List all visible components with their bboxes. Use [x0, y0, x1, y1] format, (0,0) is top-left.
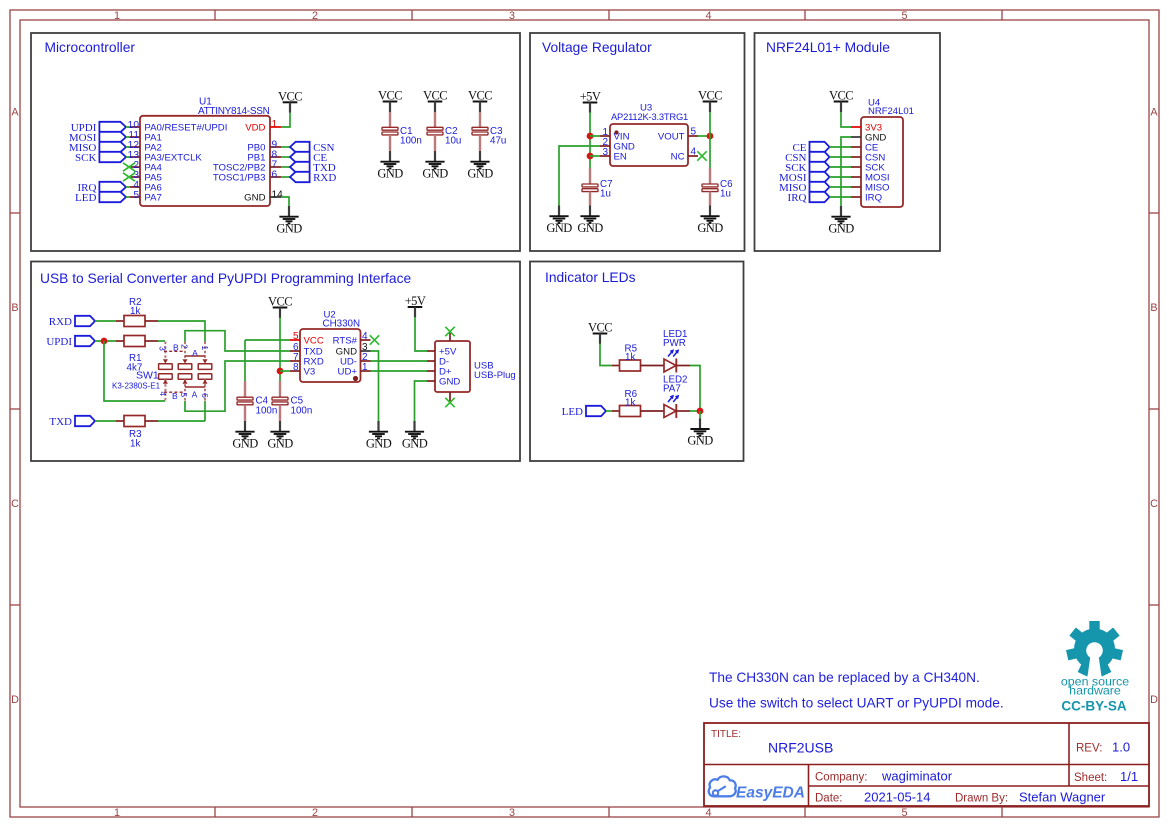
svg-text:A: A [11, 107, 19, 119]
junction V3 [277, 368, 284, 375]
ground at U1 [276, 206, 302, 235]
wire C4 column [244, 340, 246, 381]
C3 bottom lead [479, 135, 481, 151]
pin 5 of U2 [290, 339, 300, 341]
net flag UPDI [71, 122, 126, 134]
pin 1 of U3 [600, 135, 610, 137]
pin name EN U3 [614, 152, 627, 163]
svg-text:3: 3 [509, 807, 515, 819]
svg-text:CH330N: CH330N [323, 319, 361, 330]
svg-text:100n: 100n [291, 406, 313, 417]
ground at C5 [267, 421, 293, 450]
R2 reference [129, 297, 142, 308]
pin 3 of U2 [361, 350, 371, 352]
R3 left lead [116, 420, 124, 422]
R1 left lead [116, 340, 124, 342]
pin name TOSC2/PB2 [213, 163, 266, 174]
R6 left lead [612, 410, 620, 412]
power flag VCC at C2 [423, 89, 447, 113]
pin number 3 U3 [602, 147, 608, 158]
net flag MOSI [69, 132, 126, 144]
C5 top lead [279, 381, 281, 397]
USB pin +5V [427, 350, 435, 352]
junction EN [587, 153, 594, 160]
svg-text:NRF24L01: NRF24L01 [868, 106, 914, 117]
svg-text:Indicator LEDs: Indicator LEDs [545, 270, 636, 285]
wire RXD to R2 [95, 320, 116, 322]
svg-text:2: 2 [312, 10, 318, 22]
sheet label [1074, 772, 1107, 784]
U3 part name [611, 111, 688, 122]
svg-text:+5V: +5V [405, 294, 426, 308]
power flag VCC at U1 [278, 89, 302, 113]
resistor R1 [124, 336, 145, 347]
svg-text:D: D [11, 694, 19, 706]
company value [881, 769, 953, 784]
no-connect X on PA5 [123, 173, 135, 181]
wire U2 GND to ground [371, 351, 379, 421]
svg-text:Sheet:: Sheet: [1074, 772, 1107, 784]
svg-text:CC-BY-SA: CC-BY-SA [1061, 699, 1127, 714]
C5 reference [291, 396, 304, 407]
wire switch B2 to U2 TXD [185, 331, 290, 351]
pin number 4 U1 [133, 180, 139, 191]
ground at C7 [577, 206, 603, 235]
pin number 2 U3 [602, 137, 608, 148]
pin number 6 U1 [272, 170, 278, 181]
svg-text:Stefan Wagner: Stefan Wagner [1019, 790, 1106, 805]
svg-text:6: 6 [200, 393, 210, 398]
pin name V3 U2 [304, 367, 316, 378]
pin 7 of U2 [290, 360, 300, 362]
svg-text:RXD: RXD [49, 316, 72, 328]
pin number 8 U1 [272, 150, 278, 161]
pin name TXD U2 [304, 347, 323, 358]
section title Voltage Regulator [542, 40, 652, 55]
capacitor C1 [382, 127, 398, 135]
svg-text:1: 1 [200, 345, 210, 350]
pin name PB1 [247, 153, 265, 164]
pin 3V3 of U4 [851, 126, 861, 128]
rev value [1112, 740, 1130, 755]
USB plug body [435, 341, 470, 392]
capacitor C4 [237, 397, 253, 405]
wire R1 to switch pin3 [158, 340, 165, 342]
net flag UPDI [46, 336, 95, 348]
OSHW text CC-BY-SA [1061, 699, 1127, 714]
IC U4 body [861, 117, 903, 207]
pin number 2 U1 [133, 160, 139, 171]
svg-text:GND: GND [422, 166, 448, 180]
pin number 9 U1 [272, 140, 278, 151]
wire U2 VCC to C4 [245, 339, 290, 341]
pin number 4 U3 [691, 147, 697, 158]
svg-text:USB to Serial Converter and Py: USB to Serial Converter and PyUPDI Progr… [40, 271, 411, 286]
USB pin D- [427, 360, 435, 362]
junction VOUT [707, 133, 714, 140]
svg-text:4: 4 [691, 147, 697, 158]
svg-text:VCC: VCC [278, 89, 302, 103]
company label [815, 772, 867, 784]
SW1 pin label B2 [173, 343, 190, 353]
power flag +5V regulator [580, 90, 601, 114]
switch SW1 leads [163, 342, 208, 402]
R5 left lead [612, 365, 620, 367]
wire IRQ U4 [830, 196, 852, 198]
capacitor C6 [702, 184, 718, 192]
R5 right lead [640, 365, 664, 367]
SW1 pin label 3 [158, 346, 168, 351]
no-connect X on RTS# [370, 335, 379, 344]
net flag CE [290, 152, 327, 164]
svg-text:GND: GND [377, 166, 403, 180]
wire UD- to D- [371, 360, 428, 362]
ground at LEDs [687, 418, 713, 447]
C1 reference [400, 126, 413, 137]
svg-text:GND: GND [276, 221, 302, 235]
svg-text:Company:: Company: [815, 772, 867, 784]
wire MISO to U1 [126, 146, 130, 148]
U2 pin1 marker dot [353, 376, 358, 381]
svg-text:VCC: VCC [468, 89, 492, 103]
svg-text:14: 14 [272, 190, 284, 201]
power flag VCC at C1 [378, 89, 402, 113]
net flag MOSI at U4 [779, 172, 830, 184]
ground at C1 [377, 151, 403, 180]
svg-text:Microcontroller: Microcontroller [45, 40, 136, 55]
svg-text:wagiminator: wagiminator [881, 769, 953, 784]
svg-text:VCC: VCC [304, 336, 324, 347]
svg-text:GND: GND [687, 434, 713, 448]
wire VCC to V3 and C5 [279, 318, 281, 382]
R3 right lead [145, 420, 158, 422]
svg-text:1.0: 1.0 [1112, 740, 1130, 755]
title block [704, 723, 1149, 806]
USB pin name GND [439, 377, 460, 388]
net flag IRQ [77, 182, 126, 194]
R2 right lead [145, 320, 158, 322]
pin name PA4 [144, 163, 162, 174]
svg-text:10u: 10u [445, 136, 461, 147]
pin name UD- U2 [340, 357, 357, 368]
svg-text:SCK: SCK [75, 152, 96, 164]
C5 value 100n [291, 406, 313, 417]
R1 value 4k7 [127, 363, 143, 374]
wire +5V to VIN/EN/C7 [589, 112, 591, 168]
svg-text:UD+: UD+ [338, 367, 358, 378]
pin name TOSC1/PB3 [213, 173, 266, 184]
R6 value 1k [625, 398, 635, 409]
LED2 name PA7 [663, 384, 681, 395]
USB pin name D- [439, 357, 449, 368]
wire CE U4 [830, 146, 852, 148]
pin 6 of U2 [290, 350, 300, 352]
pin 1 of U2 [361, 370, 371, 372]
capacitor C5 [272, 397, 288, 405]
svg-text:PA7: PA7 [144, 193, 161, 204]
SW1 reference [136, 370, 159, 382]
title label [711, 729, 741, 740]
sheet value [1120, 769, 1138, 784]
svg-text:1: 1 [272, 119, 278, 130]
svg-text:NRF24L01+ Module: NRF24L01+ Module [766, 40, 890, 55]
pin name PA5 [144, 173, 161, 184]
SW1 part name [112, 382, 161, 391]
power flag VCC at U4 [829, 89, 853, 113]
LED LED2 symbol [664, 404, 676, 418]
svg-text:3: 3 [158, 346, 168, 351]
pin name 3V3 U4 [865, 123, 882, 134]
pin 2 of U1 [130, 166, 140, 168]
wire VOUT to C6 [709, 136, 711, 168]
section title Microcontroller [45, 40, 136, 55]
pin name VOUT [658, 132, 685, 143]
pin number 3 U2 [362, 342, 368, 353]
pin number 4 U2 [362, 331, 368, 342]
junction UPDI [101, 338, 108, 345]
net flag CSN at U4 [785, 152, 829, 164]
rev label [1076, 743, 1102, 755]
USB reference [474, 361, 494, 372]
power flag VCC at U2 [268, 295, 292, 319]
net flag IRQ at U4 [788, 192, 830, 204]
svg-text:4: 4 [362, 331, 368, 342]
pin 10 of U1 [130, 126, 140, 128]
C7 value 1u [600, 189, 611, 200]
pin name PA1 [144, 133, 161, 144]
wire switch B5 to U2 RXD [185, 361, 290, 411]
net flag RXD [290, 172, 336, 184]
svg-text:VCC: VCC [829, 89, 853, 103]
pin CE of U4 [851, 146, 861, 148]
svg-text:TITLE:: TITLE: [711, 729, 741, 740]
pin number 5 U3 [691, 127, 697, 138]
svg-text:5: 5 [901, 10, 907, 22]
title NRF2USB [768, 740, 833, 756]
wire U1 to RXD [281, 176, 290, 178]
wire +5V to USB [415, 317, 427, 351]
pin name PA0/RESET#/UPDI [144, 123, 227, 134]
resistor R3 [124, 416, 145, 427]
pin number 8 U2 [293, 362, 299, 373]
pin 11 of U1 [130, 136, 140, 138]
pin 2 of U2 [361, 360, 371, 362]
wire R3 to switch A6 [158, 420, 205, 422]
svg-text:4: 4 [158, 391, 168, 396]
resistor R2 [124, 316, 145, 327]
pin 5 of U3 (VOUT) [688, 135, 698, 137]
C4 reference [256, 396, 269, 407]
svg-text:1k: 1k [130, 306, 140, 317]
svg-text:GND: GND [828, 221, 854, 235]
svg-text:LED: LED [562, 406, 583, 418]
svg-text:Date:: Date: [815, 793, 843, 805]
ground at U2 [366, 421, 392, 450]
net flag TXD [290, 162, 336, 174]
pin name PA7 [144, 193, 161, 204]
SW1 pin label 4 [158, 391, 168, 396]
net flag MISO [69, 142, 126, 154]
C7 reference [600, 179, 613, 190]
no-connect X USB top [445, 327, 454, 336]
svg-text:Voltage Regulator: Voltage Regulator [542, 40, 652, 55]
USB pin D+ [427, 370, 435, 372]
pin 4 of U2 [361, 339, 371, 341]
svg-text:6: 6 [272, 170, 278, 181]
pin SCK of U4 [851, 166, 861, 168]
pin 8 of U2 [290, 370, 300, 372]
net flag SCK [75, 152, 126, 164]
C3 value 47u [490, 136, 506, 147]
pin number 1 U2 [362, 362, 368, 373]
svg-text:C: C [1150, 498, 1158, 510]
net flag CSN [290, 142, 335, 154]
pin 7 of U1 [270, 166, 281, 168]
pin name PB0 [247, 143, 265, 154]
section box Microcontroller [31, 33, 520, 251]
power flag VCC at R5 [588, 321, 612, 345]
power flag VCC at VOUT [698, 89, 722, 113]
svg-text:3: 3 [602, 147, 608, 158]
wire IRQ to U1 [126, 186, 130, 188]
USB pin name +5V [439, 347, 457, 358]
pin number 14 U1 [272, 190, 284, 201]
svg-text:VDD: VDD [245, 123, 265, 134]
pin name IRQ U4 [865, 193, 882, 204]
svg-text:C: C [11, 498, 19, 510]
C6 bottom lead [709, 192, 711, 206]
R3 value 1k [130, 439, 140, 450]
wire USB GND to ground [415, 381, 428, 421]
pin 14 of U1 (GND) [270, 196, 281, 198]
svg-text:100n: 100n [400, 136, 422, 147]
pin 8 of U1 [270, 156, 281, 158]
pin name NC [671, 152, 685, 163]
wire LED to R6 [606, 410, 612, 412]
svg-text:5: 5 [179, 392, 189, 397]
wire SCK U4 [830, 166, 852, 168]
net flag RXD [49, 316, 95, 328]
wire CSN U4 [830, 156, 852, 158]
resistor R6 [620, 406, 641, 417]
C6 reference [720, 179, 733, 190]
C4 value 100n [256, 406, 278, 417]
svg-text:5: 5 [293, 331, 299, 342]
svg-text:RTS#: RTS# [333, 336, 358, 347]
pin name VIN U3 [614, 132, 630, 143]
svg-text:5: 5 [691, 127, 697, 138]
ground at C6 [697, 206, 723, 235]
wire UPDI to R1 [95, 340, 116, 342]
wire UPDI to U1 [126, 126, 130, 128]
ground at U4 [828, 206, 854, 235]
pin MOSI of U4 [851, 176, 861, 178]
svg-text:VCC: VCC [378, 89, 402, 103]
wire LED2 to ground rail [690, 410, 700, 412]
svg-text:VCC: VCC [698, 89, 722, 103]
svg-text:GND: GND [267, 436, 293, 450]
svg-text:PWR: PWR [663, 338, 686, 349]
svg-text:LED: LED [75, 192, 96, 204]
U4 part name [868, 106, 914, 117]
IC U1 body [140, 116, 270, 206]
pin number 2 U2 [362, 352, 368, 363]
pin number 11 U1 [128, 130, 139, 141]
svg-text:B: B [173, 343, 179, 353]
pin 6 of U1 [270, 176, 281, 178]
svg-text:A: A [192, 348, 198, 358]
section title NRF24L01+ Module [766, 40, 890, 55]
svg-text:SW1: SW1 [136, 370, 159, 382]
svg-text:GND: GND [232, 436, 258, 450]
U1 part name [198, 106, 270, 117]
note 1 [709, 670, 980, 685]
svg-text:1u: 1u [720, 189, 731, 200]
R2 left lead [116, 320, 124, 322]
wire SCK to U1 [126, 156, 130, 158]
svg-text:8: 8 [293, 362, 299, 373]
C1 value 100n [400, 136, 422, 147]
svg-text:NC: NC [671, 152, 685, 163]
EasyEDA logo text [736, 785, 805, 802]
svg-text:ATTINY814-SSN: ATTINY814-SSN [198, 106, 270, 117]
svg-text:Drawn By:: Drawn By: [955, 793, 1008, 805]
wire MOSI U4 [830, 176, 852, 178]
IC U2 body [300, 329, 361, 382]
section box Indicator LEDs [530, 262, 744, 462]
wire VDD to VCC [281, 113, 290, 127]
svg-text:GND: GND [402, 436, 428, 450]
C6 top lead [709, 168, 711, 184]
svg-text:AP2112K-3.3TRG1: AP2112K-3.3TRG1 [611, 111, 688, 122]
wire R2 to switch A1 [158, 321, 205, 342]
pin name CSN U4 [865, 153, 885, 164]
svg-text:4: 4 [705, 807, 711, 819]
U2 part name [323, 319, 361, 330]
svg-text:RXD: RXD [313, 172, 336, 184]
wire VCC to 3V3 [841, 112, 851, 127]
pin IRQ of U4 [851, 196, 861, 198]
svg-text:GND: GND [546, 221, 572, 235]
pin 5 of U1 [130, 196, 140, 198]
svg-text:1k: 1k [625, 398, 635, 409]
wire U1 to CE [281, 156, 290, 158]
C6 value 1u [720, 189, 731, 200]
U3 reference designator [640, 103, 652, 114]
pin number 10 U1 [128, 120, 140, 131]
wire to ground [699, 411, 701, 418]
svg-text:VCC: VCC [588, 321, 612, 335]
svg-text:K3-2380S-E1: K3-2380S-E1 [112, 382, 161, 391]
wire UPDI to switch pin4 [104, 341, 165, 401]
C5 bottom lead [279, 405, 281, 421]
ground at USB [402, 421, 428, 450]
USB pin name D+ [439, 367, 452, 378]
pin 3 of U3 [600, 155, 610, 157]
U4 reference designator [868, 98, 881, 109]
R5 value 1k [625, 352, 635, 363]
ground at C2 [422, 151, 448, 180]
net flag LED [75, 192, 126, 204]
wire EN [590, 155, 600, 157]
pin 1 of U1 (VDD) [270, 126, 281, 128]
pin number 5 U2 [293, 331, 299, 342]
pin number 13 U1 [128, 150, 140, 161]
switch SW1 contacts [159, 364, 212, 380]
svg-text:5: 5 [901, 807, 907, 819]
C1 top lead [389, 112, 391, 127]
wire U4 GND to ground [841, 137, 851, 206]
